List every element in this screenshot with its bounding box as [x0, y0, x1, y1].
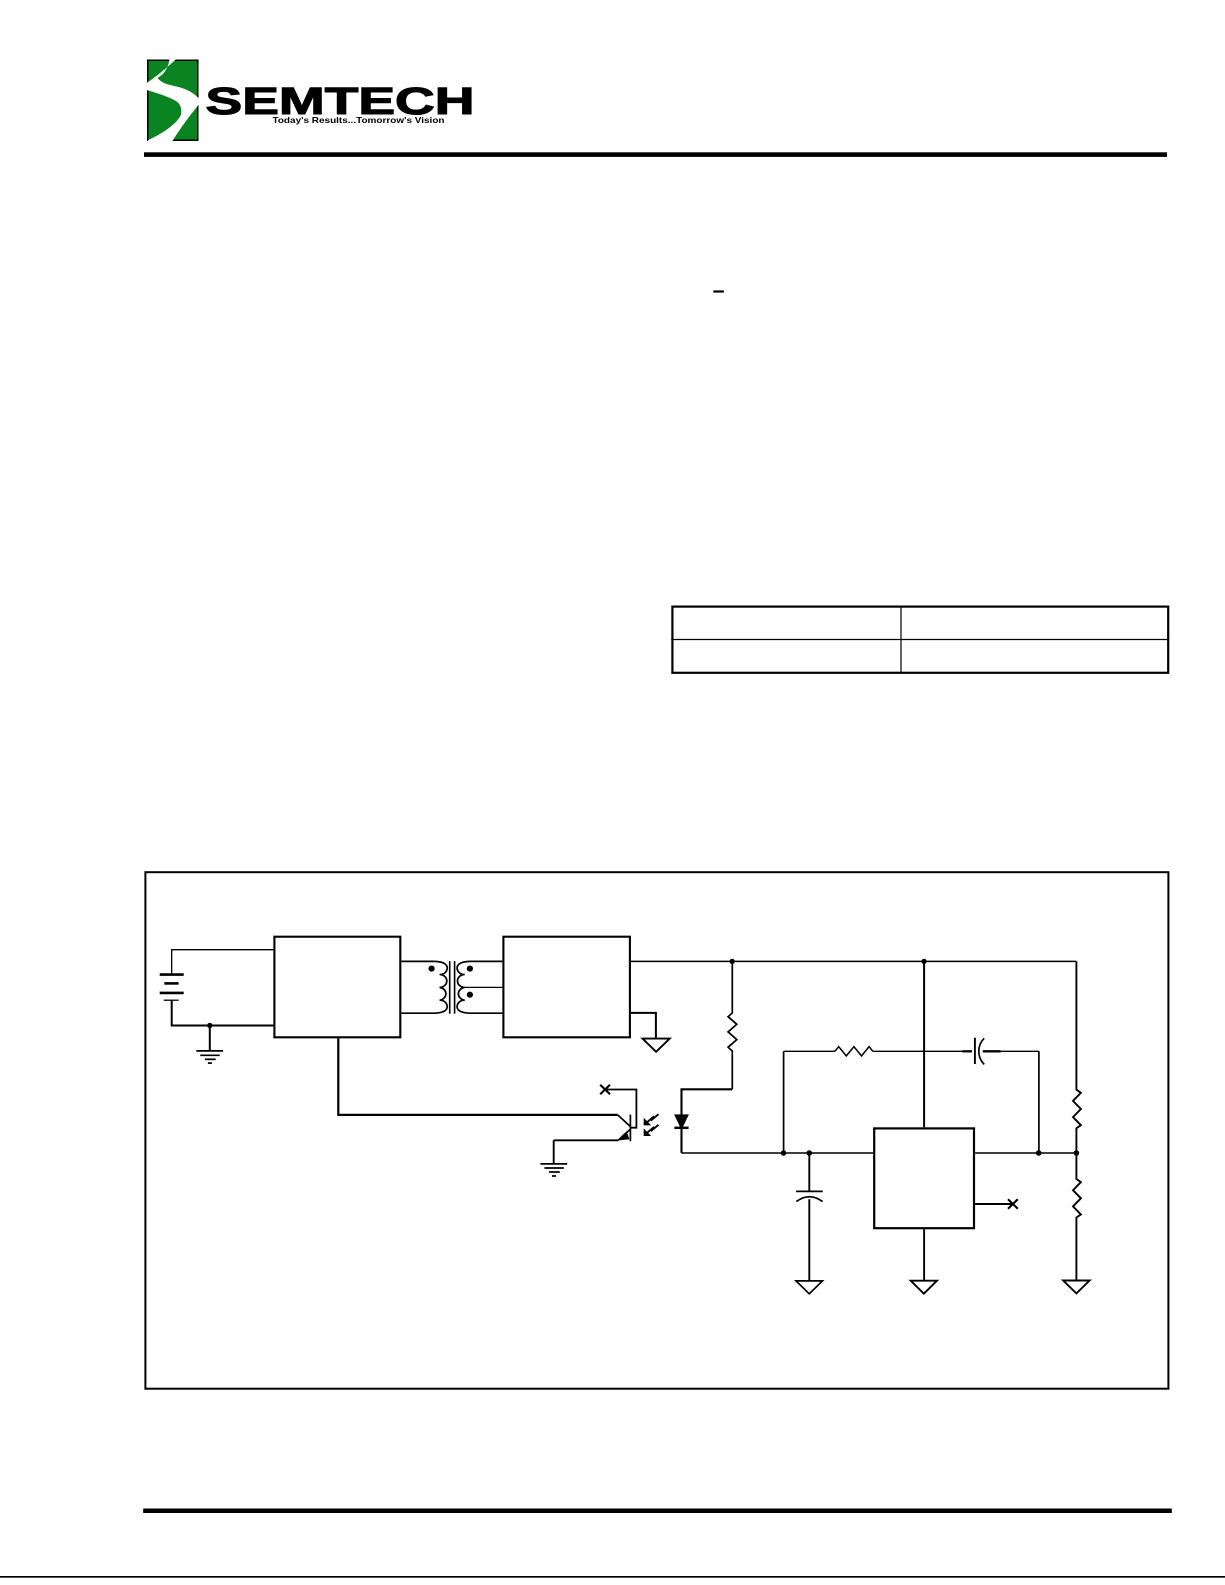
svg-text:Today's Results...Tomorrow's V: Today's Results...Tomorrow's Vision — [273, 116, 445, 125]
